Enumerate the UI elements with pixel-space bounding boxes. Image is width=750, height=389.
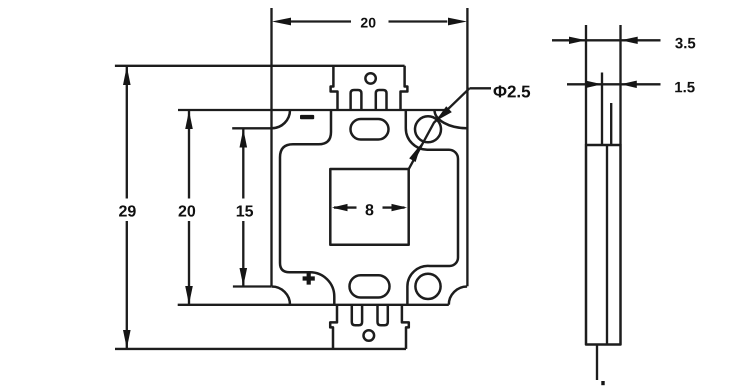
svg-text:20: 20 [178,203,196,220]
svg-text:3.5: 3.5 [675,35,696,52]
svg-text:Φ2.5: Φ2.5 [493,82,531,101]
svg-text:29: 29 [118,203,136,220]
svg-text:1.5: 1.5 [674,79,695,96]
svg-text:20: 20 [360,14,376,30]
svg-text:15: 15 [236,203,254,220]
svg-text:8: 8 [365,202,374,219]
